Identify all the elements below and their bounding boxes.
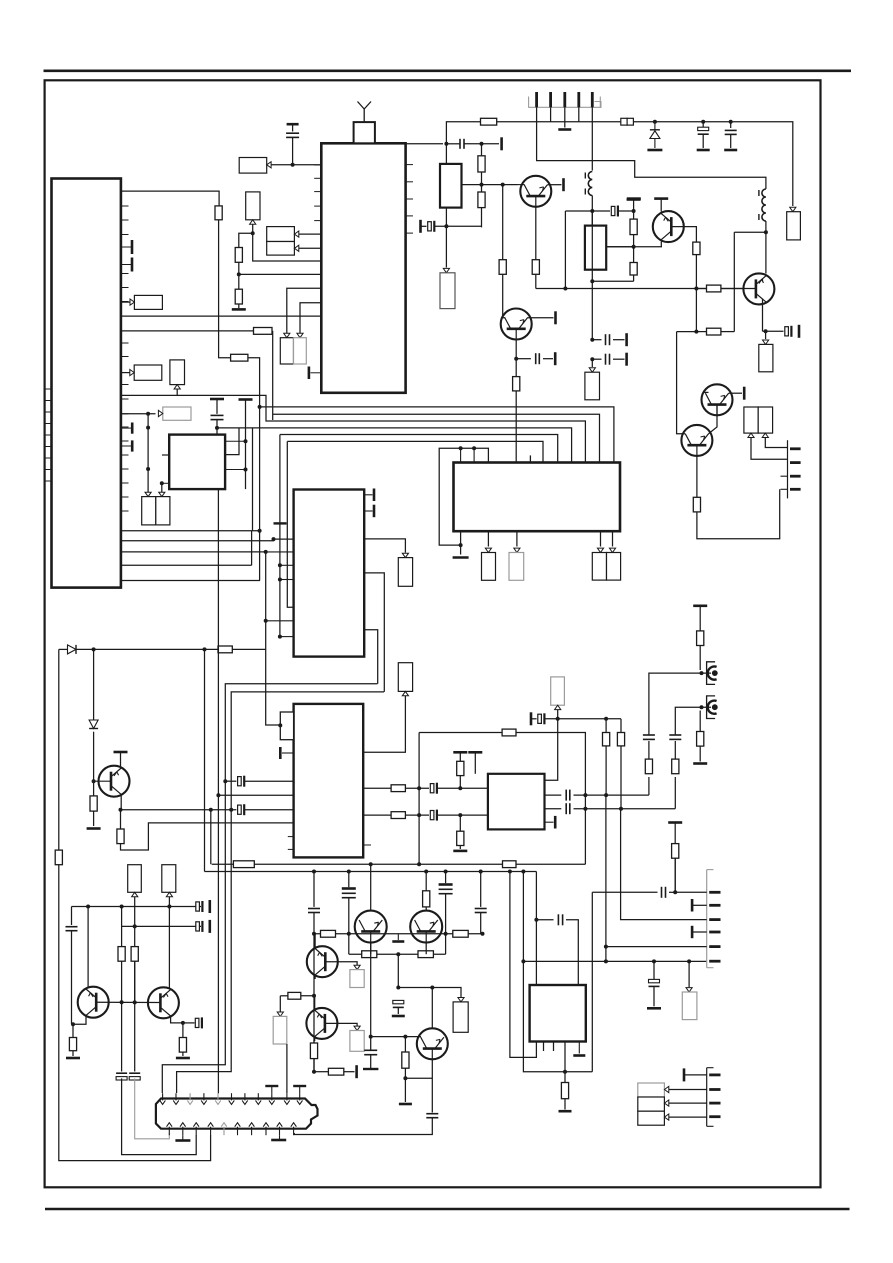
U7 r b2 — [574, 808, 676, 810]
resistor R45 — [672, 844, 679, 859]
jack J2 — [707, 662, 718, 685]
border frame — [45, 80, 821, 1187]
resistor R39 — [321, 930, 336, 937]
rail 954 — [348, 934, 350, 954]
U5 stub 636 — [280, 636, 294, 638]
B23b wire — [669, 1102, 707, 1104]
resistor R47 — [310, 1043, 317, 1059]
jct Q3 e — [764, 329, 768, 333]
jack1 top chain — [699, 606, 701, 631]
drop 426 — [425, 872, 427, 891]
ground GND U8 — [573, 1054, 585, 1057]
arrow into B6 — [130, 370, 134, 376]
capacitor C27 — [393, 1000, 404, 1007]
box B6 — [134, 365, 162, 380]
U4 top wrap — [439, 448, 488, 545]
jct 592 y339 dup — [591, 339, 593, 341]
inductor L2 — [585, 172, 592, 196]
jct864 370 — [369, 862, 373, 866]
rail y121 c — [633, 122, 792, 206]
U1 pin tick — [121, 440, 129, 442]
ground GND J1 b — [271, 1139, 286, 1142]
jct 288 a — [563, 287, 567, 291]
rail 871 — [205, 871, 537, 873]
ground GND C20 — [724, 149, 737, 152]
drop 121 R11 — [121, 907, 123, 947]
res995 b — [301, 996, 315, 1010]
jct 808 x621 — [619, 807, 623, 811]
capacitor C17 — [643, 735, 655, 739]
ground GND U7 — [453, 850, 467, 853]
jack1 top chain b — [699, 646, 701, 671]
riser y121 — [446, 122, 448, 144]
branch to R3 — [239, 233, 253, 247]
capacitor C2 — [211, 415, 224, 419]
capacitor C16 — [538, 713, 545, 724]
U1 left pin tick — [45, 469, 52, 471]
R13 stem — [72, 1024, 74, 1037]
bus E y580 — [121, 580, 260, 582]
loop rail 1 — [162, 684, 377, 1093]
arrow into B4 — [130, 299, 134, 305]
arrow into B14a — [132, 892, 138, 896]
terminal T comb4 — [683, 1068, 686, 1081]
arrow into B20b — [762, 433, 768, 437]
U1 pin tick — [121, 342, 129, 344]
arrow into B16 — [790, 207, 796, 211]
resistor R37 — [707, 328, 721, 335]
B20a stem — [751, 438, 788, 460]
U2 to B3b — [299, 247, 322, 249]
c32 wire — [536, 919, 553, 921]
U6 out a — [363, 787, 391, 789]
comb2 stub a — [781, 475, 788, 477]
box B21 — [453, 1002, 468, 1032]
jct 184 a — [480, 183, 484, 187]
drop 348 — [348, 872, 350, 888]
wire box to U2 — [267, 164, 322, 166]
rail 864 b — [254, 863, 585, 865]
comb4 head — [707, 1067, 714, 1069]
U5 T pin a — [364, 489, 374, 502]
box B23c — [638, 1111, 665, 1125]
net B 1071 — [523, 872, 592, 1072]
c34 dn — [653, 986, 655, 1006]
r37 c — [721, 331, 734, 333]
U8 out — [564, 1042, 566, 1083]
box B23a — [638, 1083, 665, 1097]
arrow into B8 — [158, 410, 162, 416]
capacitor C6 — [196, 901, 203, 912]
R13 dn — [72, 1051, 74, 1056]
jct x245 a — [244, 439, 248, 443]
x218 branch U6 — [218, 794, 293, 796]
zener D3 — [650, 122, 660, 148]
Q3 e dn — [765, 331, 767, 339]
R29 dn — [633, 235, 635, 263]
terminal T Q6 — [554, 311, 557, 324]
rail 864 — [212, 863, 234, 865]
C23 b — [435, 225, 482, 227]
R20 stem — [459, 752, 461, 761]
Q3 e wire — [763, 330, 784, 332]
U1 pin tick — [121, 234, 129, 236]
ground GND R9 — [87, 827, 101, 830]
comb pin — [549, 92, 552, 107]
U1 pin tick — [121, 273, 129, 275]
r37 a — [696, 331, 706, 333]
transistor Q4 — [702, 384, 733, 415]
Q10 out — [325, 962, 357, 966]
drop 481 b — [481, 172, 483, 192]
954 dn — [397, 954, 399, 987]
resistor R26 — [672, 759, 679, 774]
U5 stub C — [266, 551, 294, 553]
jct y143 d — [480, 142, 484, 146]
R19 to cap — [405, 814, 429, 816]
resistor R28 — [481, 118, 497, 125]
box B4 — [134, 295, 162, 309]
mid gnd stub — [397, 934, 399, 940]
jct Q6 cap — [514, 357, 518, 361]
resistor R35 — [707, 285, 721, 292]
R14 dn — [182, 1052, 184, 1056]
resistor R38 — [693, 497, 700, 512]
comb pin — [535, 92, 538, 107]
T2 out — [606, 246, 662, 248]
jct L5r 636 — [278, 635, 282, 639]
cap892 wire — [592, 891, 657, 893]
jct 919 a — [534, 918, 538, 922]
rail y121 to coil top — [765, 187, 767, 189]
jct L2 b — [590, 279, 594, 283]
IC U3 (small square) — [169, 435, 225, 490]
riser C down — [265, 552, 267, 621]
bus D y565 — [121, 564, 252, 566]
U1 pin tick — [121, 287, 129, 289]
IC T2 IF transformer — [585, 226, 606, 270]
terminal T 675 — [668, 821, 682, 824]
Q3 dn — [762, 299, 764, 332]
arrow into B25 — [354, 1026, 360, 1030]
U7 top pin — [474, 752, 476, 774]
U7 r a2 — [574, 794, 649, 796]
rail U1-U2 y316 — [121, 315, 321, 317]
y1078 wire — [405, 1077, 432, 1079]
R21 up — [459, 815, 461, 831]
arrow into B1 — [267, 162, 271, 168]
ground GND R13 — [66, 1057, 80, 1060]
riser 676 b — [677, 430, 686, 434]
resistor R36 — [693, 242, 700, 255]
box B14b — [162, 865, 176, 893]
capacitor C10 — [116, 1073, 127, 1080]
bus A y530 — [121, 530, 260, 532]
ground GND R4 — [232, 308, 246, 311]
jct 987 b — [430, 986, 434, 990]
terminal T stub — [239, 398, 253, 401]
jct871 523 — [521, 870, 525, 874]
arrow into B23b — [664, 1100, 668, 1106]
T1 feed — [445, 144, 447, 164]
jct L5r 565 — [278, 563, 282, 567]
U4 pin to B10b — [516, 531, 518, 546]
jack1 chain — [648, 777, 650, 795]
rail 954 c — [445, 934, 447, 954]
jct L5r 579 — [278, 578, 282, 582]
jct x245 b — [244, 468, 248, 472]
arrow into B5b — [297, 333, 303, 337]
U1 pin tick — [121, 219, 129, 221]
drop 134 b — [134, 961, 136, 1071]
ground GND C27 — [392, 1015, 405, 1018]
jct C21 — [632, 209, 636, 213]
jct 339 — [590, 338, 594, 342]
resistor R31 — [478, 156, 485, 172]
resistor R7 — [218, 646, 232, 653]
C2 jct to U3 — [225, 428, 239, 455]
resistor R5 — [254, 328, 273, 335]
arrow into B24 — [354, 965, 360, 969]
rail y121 — [448, 121, 481, 123]
resistor R11 — [118, 947, 125, 962]
box B20b — [758, 407, 772, 433]
rail y121 b — [497, 121, 621, 123]
box B8 — [163, 407, 191, 420]
resistor R9 — [90, 796, 97, 811]
jct 906 a — [86, 905, 90, 909]
comb3 w5b — [605, 947, 607, 962]
loop U7 top b — [516, 733, 585, 865]
U1 pin tick — [121, 356, 129, 358]
transistor Q13 — [410, 911, 442, 943]
ground GND U4 — [453, 556, 469, 559]
Q6 coll — [528, 317, 554, 319]
resistor R12 — [131, 947, 138, 962]
arrow into B21 — [458, 998, 464, 1002]
resistor R24 — [645, 759, 652, 774]
jct L2 a — [590, 209, 594, 213]
gnd stem b — [279, 1135, 281, 1140]
jct 795 x585 — [583, 793, 587, 797]
C1 stem — [292, 124, 294, 131]
resistor R15 — [233, 861, 254, 868]
U2 to B3a — [299, 233, 322, 235]
r48 b — [344, 1071, 355, 1073]
Q12 coll — [370, 864, 372, 911]
B20b stem — [765, 438, 787, 448]
riser 565 — [564, 211, 566, 289]
jct871 509 — [508, 870, 512, 874]
U4 gnd pin — [460, 531, 462, 554]
jct 288 b — [694, 287, 698, 291]
terminal T jack2 dn — [693, 762, 707, 765]
xtal bar pin 1 — [121, 240, 132, 254]
box B18 — [759, 344, 773, 371]
drop 314 — [313, 872, 315, 907]
arrow into B11a — [597, 548, 603, 552]
capacitor C36 — [426, 1114, 438, 1118]
resistor R30 — [630, 263, 637, 276]
gnd stem a — [182, 1135, 184, 1140]
U5 pin to loop1 — [364, 630, 378, 684]
U1 left pin tick — [45, 480, 52, 482]
resistor R18 — [391, 785, 405, 792]
jct 987 — [396, 986, 400, 990]
wire 281 — [592, 280, 633, 282]
T right stem — [660, 199, 662, 212]
comb3 w2b — [692, 904, 707, 906]
jct 906 c — [167, 905, 171, 909]
comb2 pin — [790, 488, 801, 491]
U1 pin tick — [121, 205, 129, 207]
Q2 coll wire — [671, 227, 696, 243]
resistor R32 — [478, 192, 485, 208]
rail 954 b — [349, 953, 446, 955]
resistor R34 — [499, 260, 506, 275]
U4 pin to B10a — [487, 531, 489, 546]
U1 pin tick — [121, 398, 129, 400]
U1 pin tick — [121, 454, 129, 456]
xtal bar pin 4 — [121, 440, 132, 451]
box flag box B1 — [239, 158, 267, 174]
riser D — [251, 531, 253, 566]
comb pin3 drop — [564, 107, 566, 127]
jct Q9 emit — [181, 1021, 185, 1025]
capacitor C26 — [606, 354, 610, 365]
T2 top — [591, 211, 593, 226]
jct E — [258, 529, 262, 533]
drop 446 b — [445, 894, 447, 934]
jct 954 — [396, 952, 400, 956]
C2 stem2 — [216, 420, 218, 435]
U1 left pin tick — [45, 457, 52, 459]
U8 bottom pin b — [553, 1042, 555, 1052]
terminal T jack1 — [693, 604, 707, 607]
resistor R1 — [215, 206, 222, 220]
comb4 w1 — [684, 1074, 707, 1076]
resistor R13 — [69, 1038, 76, 1051]
B13 stem — [363, 696, 405, 753]
connector J1 (SCART) — [156, 1093, 318, 1135]
rail U1 y331 + to L3 — [121, 330, 254, 332]
riser L3 — [272, 331, 274, 420]
jct 1071 x314 — [312, 1070, 316, 1074]
rail 933 — [314, 933, 483, 935]
rail 288 — [536, 288, 756, 290]
resistor R14 — [179, 1038, 186, 1053]
x121 to scart — [122, 1078, 197, 1154]
cap to U7 a — [437, 787, 488, 789]
notch feed — [266, 621, 281, 725]
jct Q8 emit — [71, 1022, 75, 1026]
ground GND J1 a — [175, 1139, 190, 1142]
IC U6 (mid lower) — [294, 704, 364, 858]
jct base b — [133, 1000, 137, 1004]
capacitor C7 — [196, 921, 203, 932]
terminal T U7 a — [453, 751, 467, 754]
resistor R4 — [235, 289, 242, 304]
box B26 — [273, 1016, 287, 1044]
comb3 pin — [709, 960, 720, 963]
res995 wire — [280, 995, 288, 997]
T1 out — [462, 184, 518, 186]
U1 pin tick — [121, 301, 129, 303]
U8 bottom pin a — [543, 1042, 545, 1052]
U6 out b — [363, 814, 391, 816]
xtal bar pin 3 — [121, 423, 132, 434]
drop 480 — [480, 872, 482, 907]
jct Q7 emit — [119, 808, 123, 812]
U3 right stub b — [225, 469, 245, 471]
jct 184 b — [501, 183, 505, 187]
jct871 348 — [347, 870, 351, 874]
transistor Q5 — [681, 425, 712, 456]
terminal T Q1 — [562, 178, 565, 191]
junction B2 stem — [251, 231, 255, 235]
C19 dn — [702, 134, 704, 148]
transistor Q7 — [99, 766, 130, 797]
jct rail807 x211 — [209, 808, 213, 812]
C21 to jct — [618, 210, 634, 212]
jct D rail a — [92, 647, 96, 651]
left drop x58 b — [59, 865, 211, 1161]
comb2 pin — [790, 447, 801, 450]
resistor R21 — [457, 831, 464, 845]
L2 dn — [591, 196, 593, 340]
cap892 b — [669, 891, 675, 893]
jct 995 — [312, 994, 316, 998]
jct 933 b — [347, 932, 351, 936]
jct 933 a — [312, 932, 316, 936]
jct loop1 cap — [223, 779, 227, 783]
bottom rule — [45, 1208, 850, 1210]
long net x218 — [217, 489, 219, 1093]
capacitor C19 — [698, 127, 709, 134]
rail871 corner — [535, 872, 537, 986]
Q12 emit2 — [370, 943, 372, 955]
arrow into B14b — [166, 892, 172, 896]
terminal C2 top — [210, 398, 224, 401]
drop 71 cap b — [71, 931, 73, 1024]
terminal T 1071 — [355, 1065, 358, 1078]
transistor Q1 — [520, 176, 551, 207]
jct rail z — [653, 120, 657, 124]
R14 stem — [182, 1023, 184, 1038]
box B11a — [592, 553, 606, 581]
terminal T left Q2 — [627, 197, 641, 200]
jct 877 x480 — [479, 870, 483, 874]
box B9b — [156, 497, 170, 525]
rail 807 — [121, 809, 237, 811]
jct 933 c — [444, 932, 448, 936]
R10 to U6 — [121, 823, 294, 850]
U2 right tick — [406, 181, 413, 183]
x592 net — [591, 892, 593, 1071]
terminal C6 T — [209, 900, 212, 913]
jct base a — [120, 1000, 124, 1004]
terminal T y143 — [500, 137, 503, 150]
capacitor C8 — [66, 927, 78, 931]
antenna — [358, 102, 372, 123]
jct D rail b — [203, 647, 207, 651]
drop x211 — [210, 810, 212, 865]
capacitor C3 — [536, 353, 540, 364]
Q11 emit — [314, 1037, 316, 1041]
comb2 spine — [787, 440, 789, 498]
C16 wire — [531, 718, 537, 720]
diode D1 — [68, 645, 77, 654]
